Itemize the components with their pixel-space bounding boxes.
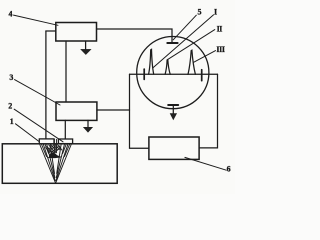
bottom terminal stem and arrow: [172, 105, 174, 114]
svg-text:3: 3: [9, 73, 13, 82]
leader for label 2: [14, 109, 63, 142]
leader for label 6: [185, 157, 226, 170]
arrow below box 4: [85, 41, 87, 50]
leader for label II: [168, 30, 215, 60]
slag scribble hatch: [46, 145, 62, 153]
leader for label III: [194, 51, 216, 63]
spike II: [165, 60, 170, 75]
svg-text:6: 6: [227, 165, 231, 174]
svg-text:2: 2: [8, 102, 12, 111]
box 6 (recorder): [149, 137, 199, 159]
leader for label 5: [173, 15, 196, 40]
wire box4 bottom to box3 top: [65, 41, 67, 102]
V-groove right lines: [56, 145, 71, 183]
box 4 (top control unit): [56, 23, 97, 42]
wire box3 bottom to right shoe: [64, 120, 66, 139]
leader for label 4: [14, 15, 59, 25]
right electrode tick: [201, 70, 203, 81]
svg-text:I: I: [214, 8, 217, 17]
V-groove left lines: [40, 145, 56, 183]
svg-text:1: 1: [10, 117, 14, 126]
svg-text:II: II: [217, 24, 223, 33]
left electrode tick: [143, 69, 145, 79]
arrow below box 3: [87, 120, 89, 128]
bottom terminal bar: [168, 104, 178, 106]
wire box4 right to top terminal: [97, 29, 173, 43]
workpiece 1 plate: [2, 144, 117, 184]
spike I: [149, 49, 154, 74]
left cooling shoe: [39, 139, 54, 144]
leader for label I: [153, 15, 214, 68]
svg-text:4: 4: [9, 9, 13, 18]
baseline chord wire: [130, 73, 218, 75]
electrode wires in gap: [53, 139, 55, 153]
wire left loop vertical to box 6: [130, 74, 149, 148]
top terminal bar 5: [167, 42, 177, 44]
right cooling shoe: [58, 139, 72, 144]
box 3 (middle unit): [56, 102, 97, 120]
leader for label 3: [15, 80, 61, 105]
svg-text:5: 5: [198, 8, 202, 17]
spectrometer chamber circle: [137, 37, 209, 109]
spike III: [188, 50, 195, 74]
svg-text:III: III: [216, 45, 224, 54]
wire box3 right to left loop vertical: [97, 109, 130, 111]
weld pool surface line: [48, 156, 61, 159]
leader for label 1: [16, 124, 40, 142]
wire right loop vertical to box 6: [199, 74, 217, 148]
wire stub left of box 4: [46, 30, 56, 32]
wire left vertical from box 4 to left shoe: [45, 31, 47, 139]
weld pool blob: [49, 153, 61, 158]
